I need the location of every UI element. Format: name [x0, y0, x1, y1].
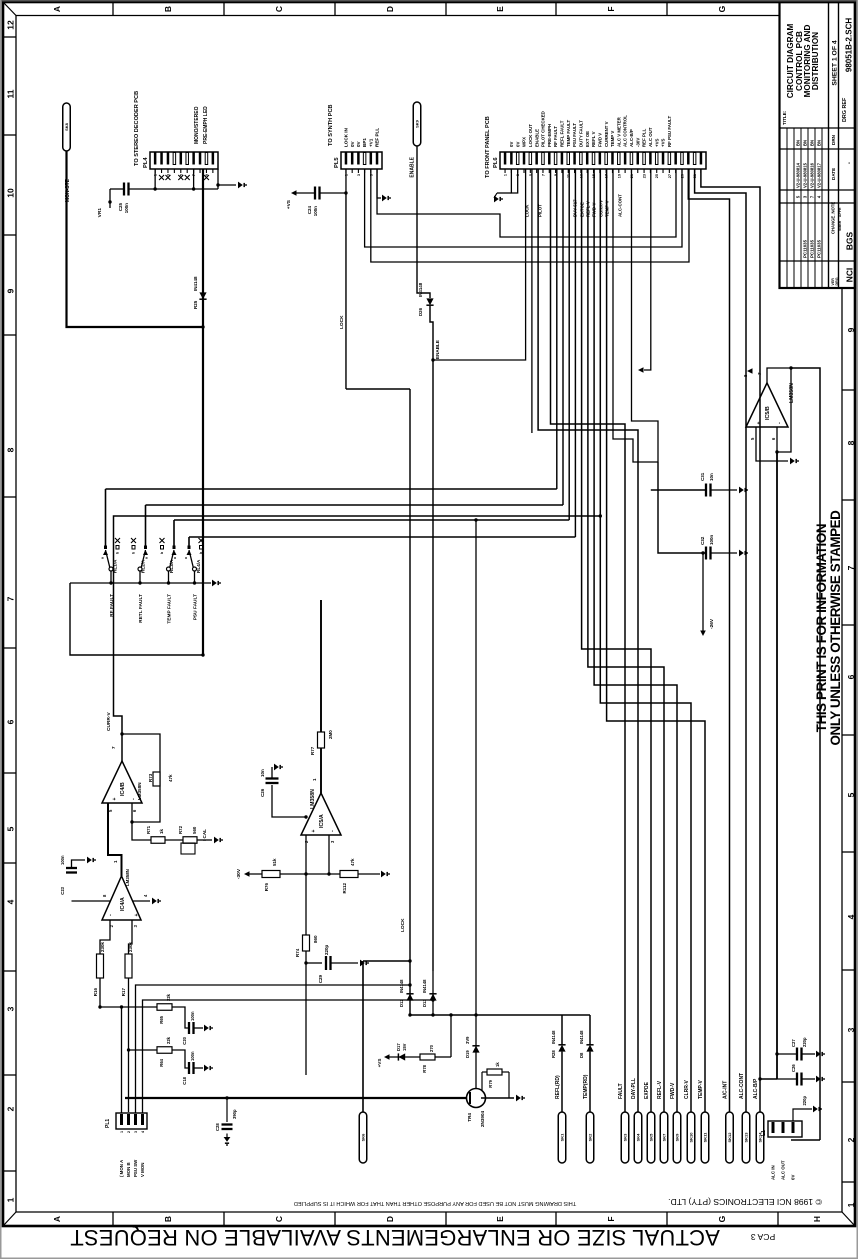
svg-text:RF PSU FAULT: RF PSU FAULT: [667, 116, 672, 147]
svg-text:R73: R73: [148, 773, 153, 782]
svg-text:SK8: SK8: [64, 122, 69, 131]
svg-text:BN: BN: [796, 140, 801, 146]
svg-text:RF FAULT: RF FAULT: [553, 126, 558, 147]
svg-text:LM358N: LM358N: [789, 383, 795, 403]
svg-text:PC11035: PC11035: [817, 239, 822, 258]
svg-text:27: 27: [668, 174, 672, 178]
svg-text:R72: R72: [178, 825, 183, 834]
svg-text:E: E: [495, 1216, 505, 1222]
svg-text:R65: R65: [159, 1015, 164, 1023]
svg-text:D17: D17: [396, 1043, 401, 1051]
svg-text:BN: BN: [817, 140, 822, 146]
svg-text:220p: 220p: [324, 944, 329, 955]
svg-text:IC4/B: IC4/B: [120, 782, 126, 796]
svg-text:1: 1: [846, 1202, 856, 1207]
svg-text:5: 5: [6, 826, 16, 831]
svg-text:BN: BN: [803, 140, 808, 146]
svg-text:B: B: [163, 6, 173, 12]
svg-text:ACTUAL SIZE OR ENLARGEMENTS AV: ACTUAL SIZE OR ENLARGEMENTS AVAILABLE ON…: [70, 1225, 720, 1250]
svg-text:PL4: PL4: [143, 157, 149, 168]
svg-text:REFL-V: REFL-V: [657, 1080, 663, 1099]
svg-text:PRE-EMPH LED: PRE-EMPH LED: [203, 106, 209, 144]
svg-text:RL4/A: RL4/A: [196, 559, 201, 573]
svg-text:CLRR-V: CLRR-V: [684, 1079, 690, 1099]
svg-text:TO STEREO DECODER PCB: TO STEREO DECODER PCB: [134, 91, 140, 166]
svg-text:F: F: [606, 6, 616, 11]
svg-text:SK7: SK7: [662, 1133, 667, 1142]
svg-text:-30V: -30V: [635, 138, 640, 147]
svg-text:3: 3: [134, 1131, 138, 1133]
svg-text:LOCK: LOCK: [339, 315, 345, 329]
svg-text:TEMP FAULT: TEMP FAULT: [167, 594, 173, 624]
svg-text:LM358N: LM358N: [310, 789, 316, 809]
svg-text:F: F: [606, 1216, 616, 1221]
svg-text:PC11035: PC11035: [810, 239, 815, 258]
svg-text:V2-U-980814: V2-U-980814: [796, 162, 801, 188]
svg-text:CURR-V: CURR-V: [106, 712, 112, 731]
svg-text:10: 10: [6, 188, 16, 198]
svg-text:100n: 100n: [190, 1011, 195, 1021]
svg-text:RL3/A: RL3/A: [169, 559, 174, 573]
svg-text:25: 25: [655, 174, 659, 178]
svg-text:100n: 100n: [709, 534, 714, 545]
svg-text:SK11: SK11: [703, 1132, 708, 1143]
svg-text:0V: 0V: [515, 142, 520, 147]
svg-text:SK13: SK13: [744, 1132, 749, 1143]
svg-text:I CAL: I CAL: [202, 829, 207, 841]
svg-text:C27: C27: [791, 1039, 796, 1047]
svg-text:IN4148: IN4148: [418, 282, 423, 297]
svg-text:1: 1: [120, 1131, 124, 1133]
svg-text:REF PLL: REF PLL: [375, 128, 380, 147]
svg-text:BGS: BGS: [845, 232, 855, 251]
svg-text:R79: R79: [488, 1079, 493, 1087]
svg-text:3: 3: [6, 1006, 16, 1011]
svg-text:270: 270: [429, 1044, 434, 1052]
svg-text:-26V: -26V: [709, 618, 715, 629]
svg-text:THIS DRAWING MUST NOT BE USED: THIS DRAWING MUST NOT BE USED FOR ANY PU…: [294, 1200, 576, 1206]
svg-text:1k: 1k: [159, 829, 164, 834]
svg-text:+VS: +VS: [661, 139, 666, 147]
svg-text:220p: 220p: [802, 1037, 807, 1047]
svg-text:R76: R76: [264, 883, 269, 892]
svg-text:10n: 10n: [260, 769, 265, 777]
svg-text:C: C: [274, 6, 284, 12]
svg-text:SK9: SK9: [415, 119, 420, 128]
svg-text:TO SYNTH PCB: TO SYNTH PCB: [328, 104, 334, 146]
svg-text:860: 860: [313, 935, 318, 943]
svg-text:ALC OUT: ALC OUT: [781, 1160, 786, 1180]
svg-text:NCI: NCI: [845, 268, 855, 282]
svg-text:LOCK: LOCK: [400, 918, 406, 932]
svg-text:REFL(RD): REFL(RD): [555, 1075, 561, 1099]
svg-text:1: 1: [6, 1197, 16, 1202]
svg-text:H: H: [812, 1216, 822, 1222]
svg-text:0V: 0V: [350, 140, 355, 147]
svg-text:SK4: SK4: [636, 1133, 641, 1142]
svg-text:R78: R78: [422, 1064, 427, 1072]
svg-text:ALC V METER: ALC V METER: [616, 116, 621, 147]
svg-text:C28: C28: [215, 1123, 220, 1131]
svg-text:3V9: 3V9: [465, 1036, 470, 1044]
svg-text:-30V: -30V: [236, 868, 242, 879]
svg-text:A: A: [52, 1216, 62, 1222]
svg-text:2: 2: [846, 1137, 856, 1142]
svg-text:D13: D13: [422, 999, 427, 1007]
svg-text:G: G: [717, 1215, 727, 1222]
svg-text:R77: R77: [310, 746, 315, 755]
svg-text:FAULT: FAULT: [618, 1083, 624, 1099]
svg-text:100n: 100n: [313, 206, 318, 217]
svg-text:-: -: [131, 798, 137, 800]
svg-text:-: -: [108, 914, 114, 916]
svg-text:D12: D12: [399, 999, 404, 1007]
svg-text:C29: C29: [318, 975, 323, 984]
svg-text:ENABLE: ENABLE: [534, 129, 539, 147]
svg-text:D19: D19: [465, 1050, 470, 1058]
svg-text:APPR: APPR: [838, 207, 842, 217]
svg-text:E: E: [495, 6, 505, 12]
svg-text:0V: 0V: [791, 1175, 796, 1180]
svg-text:L1: L1: [761, 1130, 767, 1136]
svg-text:ONLY UNLESS OTHERWISE STAMPED: ONLY UNLESS OTHERWISE STAMPED: [828, 510, 843, 746]
svg-text:BN: BN: [810, 140, 815, 146]
svg-text:IC5/A: IC5/A: [319, 814, 325, 828]
svg-text:FWD V: FWD V: [597, 133, 602, 147]
svg-text:SK5: SK5: [649, 1133, 654, 1142]
svg-text:SK12: SK12: [727, 1132, 732, 1143]
svg-text:+VS: +VS: [286, 199, 292, 209]
svg-text:V2-U-980817: V2-U-980817: [817, 162, 822, 188]
svg-text:SK3: SK3: [623, 1133, 628, 1142]
svg-text:15V: 15V: [402, 1043, 407, 1051]
svg-text:C26: C26: [260, 788, 265, 797]
svg-text:4: 4: [6, 899, 16, 904]
svg-text:IN4148: IN4148: [579, 1030, 584, 1044]
svg-text:PSU FAULT: PSU FAULT: [572, 123, 577, 147]
svg-text:C26: C26: [791, 1064, 796, 1072]
svg-text:C25: C25: [118, 203, 123, 212]
svg-text:CURRENT V: CURRENT V: [604, 121, 609, 147]
svg-text:100n: 100n: [124, 203, 129, 214]
svg-text:ALC CONTROL: ALC CONTROL: [623, 115, 628, 147]
svg-text:TO FRONT PANEL PCB: TO FRONT PANEL PCB: [485, 116, 491, 178]
svg-text:5: 5: [846, 792, 856, 797]
svg-text:9: 9: [846, 327, 856, 332]
svg-text:SK10: SK10: [689, 1132, 694, 1143]
svg-text:29: 29: [680, 174, 684, 178]
svg-text:DUTY FAULT: DUTY FAULT: [578, 120, 583, 147]
svg-text:2: 2: [127, 1131, 131, 1133]
svg-text:+VS: +VS: [654, 139, 659, 147]
svg-text:CHANGE_NOTE: CHANGE_NOTE: [831, 202, 836, 234]
svg-text:2N3904: 2N3904: [480, 1110, 485, 1127]
svg-text:IN4148: IN4148: [399, 979, 404, 993]
svg-text:V2-U-980815: V2-U-980815: [803, 162, 808, 188]
svg-text:PSU FAULT: PSU FAULT: [193, 594, 199, 620]
svg-text:DAY-PLL: DAY-PLL: [631, 1078, 637, 1099]
svg-text:8: 8: [6, 447, 16, 452]
svg-text:R17: R17: [121, 988, 126, 997]
svg-text:REF PLL: REF PLL: [642, 128, 647, 147]
svg-text:D: D: [385, 6, 395, 12]
svg-text:WPX: WPX: [522, 137, 527, 147]
svg-text:-: -: [846, 162, 853, 164]
svg-text:1k: 1k: [495, 1062, 500, 1067]
svg-text:390p: 390p: [232, 1109, 237, 1119]
svg-text:PRE-EMPH: PRE-EMPH: [547, 124, 552, 147]
svg-text:C18: C18: [182, 1076, 187, 1084]
svg-text:6: 6: [846, 674, 856, 679]
svg-text:SK9: SK9: [675, 1133, 680, 1142]
svg-text:A: A: [52, 6, 62, 12]
svg-text:C23: C23: [60, 886, 65, 894]
svg-text:2: 2: [6, 1106, 16, 1111]
svg-text:47k: 47k: [168, 774, 173, 782]
svg-text:IC4/A: IC4/A: [120, 897, 126, 911]
svg-text:C20: C20: [182, 1036, 187, 1044]
svg-text:1: 1: [312, 778, 317, 781]
svg-text:+VS: +VS: [377, 1059, 382, 1068]
svg-text:ALC-B/P: ALC-B/P: [629, 129, 634, 147]
svg-text:PL1: PL1: [105, 1119, 111, 1128]
svg-text:LOCK IN: LOCK IN: [344, 127, 349, 147]
svg-text:B: B: [163, 1216, 173, 1222]
svg-text:7: 7: [846, 565, 856, 570]
svg-text:98051B-2.SCH: 98051B-2.SCH: [845, 18, 854, 72]
svg-text:SHEET 1 OF 4: SHEET 1 OF 4: [832, 40, 839, 86]
svg-text:R16: R16: [93, 988, 98, 997]
svg-text:VR1: VR1: [97, 208, 103, 218]
svg-text:C31: C31: [700, 472, 705, 481]
svg-text:220p: 220p: [802, 1096, 807, 1106]
svg-text:D8: D8: [579, 1052, 584, 1058]
svg-text:IN4148: IN4148: [193, 276, 198, 291]
svg-text:230k: 230k: [100, 941, 105, 952]
svg-text:TEMP-V: TEMP-V: [698, 1079, 704, 1099]
svg-text:DRG: DRG: [835, 277, 839, 285]
svg-text:4: 4: [846, 914, 856, 919]
svg-text:( MON A: ( MON A: [119, 1159, 124, 1177]
svg-text:ALC IN: ALC IN: [771, 1165, 776, 1180]
svg-text:SK1: SK1: [560, 1133, 565, 1142]
svg-text:MON B: MON B: [126, 1162, 131, 1177]
svg-text:10n: 10n: [709, 473, 714, 481]
svg-text:ALC-CONT: ALC-CONT: [739, 1073, 745, 1099]
svg-text:+: +: [756, 422, 762, 425]
svg-text:REFL FAULT: REFL FAULT: [560, 120, 565, 147]
svg-text:V MON: V MON: [140, 1163, 145, 1177]
svg-text:R64: R64: [159, 1058, 164, 1066]
svg-text:IN4148: IN4148: [551, 1030, 556, 1044]
svg-text:3: 3: [357, 174, 361, 176]
svg-text:C: C: [274, 1216, 284, 1222]
svg-text:LOCK: LOCK: [525, 204, 530, 217]
svg-text:0V: 0V: [509, 142, 514, 147]
svg-text:V2-U-980816: V2-U-980816: [810, 162, 815, 188]
svg-text:7: 7: [757, 372, 762, 375]
svg-text:-: -: [330, 830, 336, 832]
svg-text:D: D: [385, 1216, 395, 1222]
svg-text:ENABLE: ENABLE: [435, 340, 440, 359]
svg-text:C32: C32: [700, 536, 705, 545]
svg-text:R71: R71: [146, 825, 151, 834]
svg-text:+: +: [112, 798, 118, 801]
svg-text:3: 3: [846, 1027, 856, 1032]
svg-text:RL2/A: RL2/A: [141, 559, 146, 573]
svg-text:IN4148: IN4148: [422, 979, 427, 993]
svg-text:ALC-CONT: ALC-CONT: [618, 194, 623, 217]
svg-text:FWD-V: FWD-V: [670, 1082, 676, 1099]
svg-text:CIRCUIT DIAGRAM: CIRCUIT DIAGRAM: [786, 24, 795, 99]
svg-text:11: 11: [6, 89, 16, 98]
svg-text:THIS PRINT IS FOR INFORMATION: THIS PRINT IS FOR INFORMATION: [814, 524, 829, 732]
svg-text:+: +: [311, 830, 317, 833]
svg-text:+: +: [134, 914, 140, 917]
svg-text:PL5: PL5: [334, 157, 340, 168]
svg-text:TEMP V: TEMP V: [610, 131, 615, 147]
svg-text:SK6: SK6: [361, 1133, 366, 1142]
svg-text:TITLE:: TITLE:: [782, 110, 787, 125]
svg-text:R28: R28: [551, 1050, 556, 1058]
svg-text:D26: D26: [418, 307, 423, 316]
svg-text:PL6: PL6: [493, 157, 499, 168]
svg-text:47k: 47k: [350, 858, 355, 866]
svg-text:R74: R74: [295, 948, 300, 957]
svg-text:7: 7: [541, 174, 545, 176]
svg-text:LOCK OUT: LOCK OUT: [528, 124, 533, 147]
svg-text:© 1998 NCI ELECTRONICS (PTY): © 1998 NCI ELECTRONICS (PTY) LTD.: [668, 1197, 822, 1207]
svg-text:IC5/B: IC5/B: [765, 406, 771, 420]
svg-text:8: 8: [846, 440, 856, 445]
svg-text:7: 7: [6, 596, 16, 601]
svg-text:LM358N: LM358N: [125, 869, 130, 886]
svg-text:-: -: [776, 422, 782, 424]
svg-text:51k: 51k: [272, 858, 277, 866]
svg-text:TEMP FAULT: TEMP FAULT: [566, 120, 571, 147]
svg-text:7: 7: [111, 746, 116, 749]
svg-text:EXPDE: EXPDE: [644, 1081, 650, 1099]
svg-text:ALC-B/P: ALC-B/P: [753, 1078, 759, 1099]
svg-text:PILOT CHECKED: PILOT CHECKED: [541, 111, 546, 147]
svg-text:560: 560: [192, 826, 197, 834]
svg-text:+V1: +V1: [368, 138, 373, 147]
svg-text:ENABLE: ENABLE: [410, 156, 416, 177]
svg-text:NMBR: NMBR: [838, 220, 842, 231]
svg-text:1: 1: [113, 860, 118, 863]
svg-text:DATE: DATE: [831, 168, 836, 180]
svg-text:DRG REF: DRG REF: [842, 97, 848, 122]
svg-text:TR4: TR4: [467, 1113, 472, 1122]
svg-text:R112: R112: [342, 883, 347, 894]
svg-text:REFL V: REFL V: [591, 131, 596, 147]
svg-text:9: 9: [6, 288, 16, 293]
svg-text:ALC OUT: ALC OUT: [648, 127, 653, 147]
svg-text:6: 6: [6, 719, 16, 724]
svg-text:PCA 3: PCA 3: [751, 1232, 776, 1242]
svg-text:LM358N: LM358N: [137, 782, 142, 800]
svg-text:22k: 22k: [166, 1036, 171, 1044]
svg-text:PSU SW: PSU SW: [133, 1159, 138, 1177]
svg-text:12: 12: [6, 20, 16, 30]
svg-text:23: 23: [643, 174, 647, 178]
svg-text:TEMP(RD): TEMP(RD): [583, 1074, 589, 1099]
svg-text:RETL FAULT: RETL FAULT: [138, 594, 144, 623]
svg-text:MONO/STEREO: MONO/STEREO: [194, 106, 200, 144]
svg-text:100n: 100n: [60, 855, 65, 865]
svg-text:4: 4: [141, 1131, 145, 1133]
svg-text:A/C-INT: A/C-INT: [723, 1081, 729, 1099]
svg-text:PC11035: PC11035: [803, 239, 808, 258]
svg-text:2M0: 2M0: [328, 730, 333, 739]
svg-text:DRN: DRN: [831, 134, 836, 145]
svg-text:19: 19: [617, 174, 621, 178]
svg-text:BP1: BP1: [362, 138, 367, 147]
svg-text:G: G: [717, 5, 727, 12]
svg-text:SK2: SK2: [588, 1133, 593, 1142]
svg-text:1: 1: [504, 174, 508, 176]
svg-text:0V: 0V: [356, 140, 361, 147]
svg-text:C24: C24: [307, 206, 312, 215]
svg-text:100n: 100n: [190, 1051, 195, 1061]
svg-text:R25: R25: [193, 300, 198, 309]
svg-text:EXT OE: EXT OE: [585, 131, 590, 147]
svg-text:DISTRIBUTION: DISTRIBUTION: [811, 32, 820, 90]
